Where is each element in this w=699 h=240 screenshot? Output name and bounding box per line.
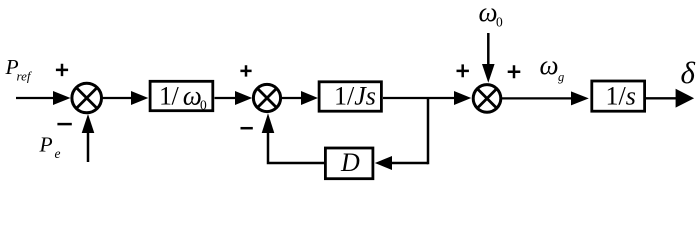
plus sign at summing junction 2 bbox=[240, 65, 251, 76]
plus sign at summing junction 1 bbox=[56, 64, 68, 76]
wire block D to sum2 bbox=[268, 133, 326, 164]
node Pref label bbox=[5, 55, 33, 84]
wire output bbox=[646, 97, 677, 99]
svg-text:δ: δ bbox=[681, 55, 696, 90]
svg-text:1/Js: 1/Js bbox=[334, 81, 376, 110]
summing junction 2 bbox=[253, 84, 280, 111]
minus sign at summing junction 1 bbox=[57, 123, 71, 126]
arrowhead into summing junction 1 bbox=[53, 91, 71, 105]
wire w0 input bbox=[487, 33, 490, 65]
node w0 label bbox=[479, 0, 504, 30]
svg-text:0: 0 bbox=[496, 15, 503, 30]
svg-text:ref: ref bbox=[17, 69, 33, 84]
svg-text:/: / bbox=[172, 82, 180, 111]
arrowhead into summing junction 2 bbox=[235, 91, 252, 105]
block D bbox=[325, 148, 373, 179]
wire block 1/w0 to sum2 bbox=[215, 97, 237, 99]
arrowhead into block D bbox=[375, 156, 392, 170]
node Pe label bbox=[39, 133, 61, 162]
block 1/s bbox=[592, 81, 645, 111]
svg-text:e: e bbox=[55, 146, 61, 161]
node wg label bbox=[540, 50, 565, 84]
svg-text:ω: ω bbox=[540, 50, 559, 80]
wire sum3 to block 1/s bbox=[501, 97, 572, 99]
wire sum1 to block 1/w0 bbox=[102, 97, 132, 99]
svg-text:P: P bbox=[39, 133, 53, 157]
summing junction 3 bbox=[473, 85, 501, 113]
svg-text:D: D bbox=[340, 148, 360, 177]
plus sign left of summing junction 3 bbox=[457, 64, 469, 77]
arrowhead Pe into summing junction 1 bbox=[82, 114, 95, 133]
svg-text:1/s: 1/s bbox=[606, 81, 636, 110]
svg-text:0: 0 bbox=[200, 98, 207, 113]
arrowhead output bbox=[676, 89, 695, 108]
plus sign right of summing junction 3 bbox=[508, 65, 521, 78]
wire Pref input bbox=[16, 97, 54, 99]
summing junction 1 bbox=[72, 83, 102, 113]
svg-text:1: 1 bbox=[159, 82, 172, 111]
arrowhead into block 1/w0 bbox=[131, 91, 148, 105]
arrowhead into summing junction 3 bbox=[454, 91, 471, 105]
arrowhead into block 1/s bbox=[571, 91, 589, 105]
svg-text:ω: ω bbox=[479, 0, 498, 27]
wire block 1/Js to sum3 bbox=[383, 97, 455, 99]
svg-text:g: g bbox=[558, 70, 564, 84]
minus sign at summing junction 2 bbox=[241, 127, 253, 130]
arrowhead w0 into summing junction 3 bbox=[482, 64, 495, 83]
arrowhead feedback into summing junction 2 bbox=[262, 113, 275, 133]
wire branch down from node bbox=[427, 98, 430, 164]
wire Pe input bbox=[87, 133, 90, 163]
wire feedback to block D bbox=[391, 162, 428, 165]
wire sum2 to block 1/Js bbox=[281, 97, 302, 99]
arrowhead into block 1/Js bbox=[301, 91, 318, 105]
block 1/Js bbox=[319, 81, 381, 111]
block 1/w0 bbox=[150, 81, 213, 113]
